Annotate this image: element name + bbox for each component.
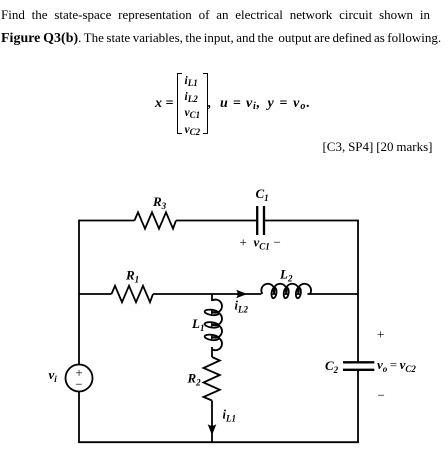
- inductor L2 coil: [261, 284, 311, 294]
- svg-text:C1: C1: [256, 186, 269, 203]
- svg-text:iL1: iL1: [223, 408, 236, 424]
- svg-text:+: +: [240, 234, 247, 249]
- inductor L1 loop 2: [204, 321, 219, 328]
- svg-text:vo=vC2: vo=vC2: [377, 357, 416, 374]
- wire R1 to node L1: [153, 293, 212, 295]
- svg-text:−: −: [378, 387, 385, 402]
- svg-text:R2: R2: [187, 371, 202, 388]
- current arrow iL1 head: [208, 424, 217, 435]
- svg-text:vC1: vC1: [254, 234, 270, 251]
- resistor R3: [135, 212, 177, 228]
- marks note: [322, 139, 432, 155]
- svg-text:R3: R3: [152, 194, 167, 211]
- wire R2 to bottom rail: [211, 401, 213, 444]
- svg-text:L1: L1: [191, 316, 204, 333]
- inductor L2 loop 1: [271, 287, 277, 298]
- matrix column: [185, 74, 201, 139]
- svg-text:vi: vi: [49, 367, 58, 384]
- inductor L1 loop 1: [204, 309, 219, 316]
- resistor R2: [204, 357, 220, 401]
- capacitor C2: [343, 362, 374, 370]
- svg-text:−: −: [75, 376, 82, 391]
- wire L2 to right rail: [307, 293, 358, 295]
- svg-text:C2: C2: [325, 358, 339, 375]
- left rail upper (corner to source): [78, 220, 80, 365]
- voltage source vi: [66, 365, 93, 392]
- wire L1 to R2: [211, 347, 213, 357]
- matrix left bracket: [177, 73, 182, 134]
- svg-text:R1: R1: [125, 268, 139, 285]
- svg-text:−: −: [274, 234, 281, 249]
- resistor R1: [112, 286, 154, 302]
- inductor L1 coil: [212, 300, 222, 351]
- wire arrow to L2: [240, 293, 261, 295]
- right rail lower (C2 to bottom corner): [357, 371, 359, 444]
- paragraph line 2: [1, 30, 441, 47]
- wire top-left horizontal (left rail to R3): [79, 220, 135, 222]
- inductor L1 loop 3: [204, 334, 219, 341]
- u = vi, y = vo: [208, 96, 212, 112]
- right rail upper (top corner to C2): [357, 220, 359, 362]
- wire R3 to C1: [176, 220, 256, 222]
- svg-text:iL2: iL2: [235, 299, 249, 315]
- node stub into L1: [211, 294, 213, 302]
- equation x = [iL1 iL2 vC1 vC2], u = vi, y = vo: [155, 96, 173, 112]
- inductor L2 loop 3: [295, 287, 301, 298]
- current arrow iL2 head: [236, 290, 247, 299]
- left rail lower (source to bottom corner): [78, 392, 80, 444]
- inductor L2 loop 2: [283, 287, 289, 298]
- matrix right bracket: [203, 73, 208, 134]
- bottom wire: [78, 441, 359, 443]
- capacitor C1: [257, 206, 264, 235]
- svg-text:+: +: [377, 327, 384, 342]
- wire C1 to top-right corner: [265, 220, 358, 222]
- svg-text:L2: L2: [279, 267, 293, 284]
- paragraph line 1: [1, 7, 430, 23]
- middle wire left (left rail to R1): [79, 293, 112, 295]
- current arrow iL2 shaft: [212, 293, 238, 295]
